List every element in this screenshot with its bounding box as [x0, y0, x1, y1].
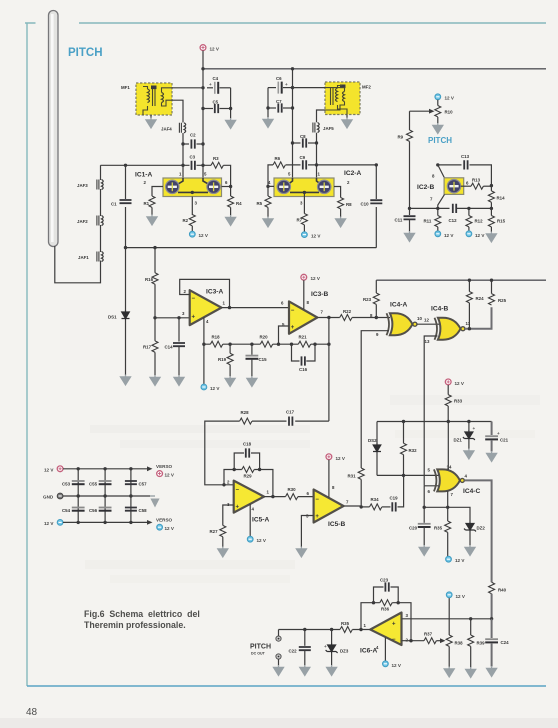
- capacitor C55: [99, 481, 112, 484]
- ground below C22: [300, 665, 310, 675]
- inductor JAF3: [97, 180, 103, 190]
- ground below R4: [226, 215, 236, 225]
- wire IC5-A output to IC5-B: [264, 496, 314, 498]
- wire pin4 to 12V: [249, 504, 251, 536]
- svg-text:R28: R28: [241, 410, 250, 415]
- ground below C6/C7: [263, 117, 273, 127]
- wire feedback line C17/R28: [205, 421, 329, 485]
- resistor R34: [361, 506, 369, 508]
- inductor JAF5: [313, 123, 319, 133]
- wire rail x=292.5 down to IC2 pin5: [292, 69, 294, 178]
- ground below R38: [444, 667, 454, 677]
- gate block IC2-B: [444, 178, 464, 195]
- svg-text:12 V: 12 V: [311, 234, 321, 239]
- svg-text:PITCH: PITCH: [428, 136, 452, 145]
- op-amp IC6-A (mirrored): [370, 613, 401, 646]
- svg-text:PITCH: PITCH: [68, 47, 103, 59]
- resistor R5: [265, 196, 271, 207]
- resistor R40: [489, 582, 495, 593]
- resistor R16: [154, 248, 156, 273]
- ground below C4/C5: [226, 118, 236, 128]
- ground below R1: [147, 215, 157, 225]
- resistor R7: [301, 214, 307, 225]
- wiper arrow into R38: [436, 640, 440, 642]
- wire pin7 down: [447, 491, 449, 507]
- wire pin7 to lower rail: [438, 194, 445, 208]
- wire pin2 to R37: [402, 640, 425, 642]
- inductor JAF2: [97, 216, 103, 226]
- svg-text:R40: R40: [498, 588, 507, 593]
- resistor R9: [409, 111, 411, 208]
- ground below C15: [247, 376, 257, 386]
- capacitor C56: [99, 508, 112, 511]
- wire C6/C7 left side to ground: [267, 88, 269, 118]
- svg-text:12 V: 12 V: [311, 276, 321, 281]
- svg-text:C56: C56: [89, 508, 98, 513]
- resistor R20: [260, 341, 272, 347]
- svg-text:R31: R31: [348, 474, 357, 479]
- svg-text:C14: C14: [165, 345, 174, 350]
- svg-text:R27: R27: [210, 529, 219, 534]
- wire pin2 to R1: [152, 187, 163, 197]
- resistor R35 input: [340, 627, 352, 633]
- wire x=316.5 down to IC2 pin1: [316, 143, 318, 178]
- capacitor C21: [491, 422, 493, 436]
- wire antenna to JAF1: [55, 246, 101, 283]
- node 12V supply top: [200, 45, 206, 51]
- wire rail to IC2-B pin5 and C13: [436, 163, 439, 166]
- node 12V at IC5-A pin4: [247, 536, 253, 542]
- svg-text:+: +: [392, 622, 396, 628]
- wire rail x=203 down to IC1 pin5: [202, 69, 204, 178]
- svg-text:12: 12: [424, 318, 429, 323]
- resistor R1: [149, 196, 155, 207]
- svg-text:C58: C58: [139, 508, 148, 513]
- svg-text:10: 10: [417, 316, 422, 321]
- svg-text:R9: R9: [398, 135, 404, 140]
- resistor R39: [470, 619, 472, 635]
- svg-text:12 V: 12 V: [44, 521, 54, 526]
- svg-text:R4: R4: [236, 201, 242, 206]
- ground below IC5-B pin5: [296, 547, 306, 557]
- wire to IC3-A pin3: [155, 317, 190, 319]
- svg-text:C12: C12: [449, 218, 458, 223]
- svg-text:12 V: 12 V: [456, 594, 466, 599]
- transformer MF2: [325, 82, 360, 115]
- svg-text:14: 14: [447, 465, 452, 470]
- ground below R39: [466, 667, 476, 677]
- ground below C21: [487, 451, 497, 461]
- wire mid rail y=247.6: [126, 247, 377, 249]
- svg-text:VERSO: VERSO: [156, 464, 173, 469]
- wire C4/C5 right side to ground: [230, 88, 232, 119]
- svg-text:C15: C15: [259, 357, 268, 362]
- node 12V negative at R2: [189, 231, 195, 237]
- svg-text:R18: R18: [212, 335, 221, 340]
- node 12V at R33: [445, 379, 451, 385]
- trimmer wiper arrow R10: [410, 110, 430, 112]
- svg-text:IC4-A: IC4-A: [390, 302, 407, 309]
- svg-text:12 V: 12 V: [210, 47, 220, 52]
- svg-text:R12: R12: [475, 219, 484, 224]
- svg-text:R34: R34: [371, 497, 380, 502]
- svg-text:GND: GND: [43, 495, 54, 500]
- svg-text:R37: R37: [424, 632, 433, 637]
- svg-text:+: +: [285, 82, 288, 87]
- svg-text:IC3-A: IC3-A: [206, 289, 223, 296]
- svg-text:13: 13: [425, 339, 430, 344]
- svg-text:C3: C3: [190, 155, 196, 160]
- svg-text:−: −: [291, 308, 295, 314]
- svg-text:C20: C20: [409, 526, 418, 531]
- op-amp cell block IC2-A: [274, 178, 334, 197]
- ground arrow at GND rail end: [150, 495, 155, 497]
- svg-text:JAF1: JAF1: [78, 255, 89, 260]
- wire pin3 to R7: [303, 192, 305, 213]
- wire terminal to input line: [278, 630, 280, 637]
- capacitor C24: [491, 619, 493, 638]
- ground below C20: [419, 545, 429, 555]
- svg-text:Theremin professionale.: Theremin professionale.: [84, 620, 186, 630]
- svg-text:12 V: 12 V: [475, 233, 485, 238]
- op-amp IC3-B: [289, 301, 317, 333]
- resistor R21: [279, 343, 329, 345]
- svg-text:R25: R25: [498, 298, 507, 303]
- svg-text:R29: R29: [244, 474, 253, 479]
- wire input line PITCH out: [279, 629, 371, 631]
- wire supply rail y=280.2: [376, 279, 546, 281]
- frame bottom border line: [27, 685, 546, 687]
- wire top supply rail y=68.8: [203, 68, 546, 70]
- feedback loop R36: [361, 603, 411, 641]
- svg-text:R2: R2: [183, 218, 189, 223]
- wire pin5 to ground: [301, 516, 313, 548]
- wire IC4-A pin9 down long: [361, 331, 389, 468]
- wire terminal bottom to ground: [278, 659, 280, 665]
- ground below DS1: [121, 375, 131, 385]
- svg-text:C53: C53: [62, 482, 71, 487]
- trimmer R38: [448, 598, 450, 635]
- svg-text:+: +: [497, 431, 500, 436]
- transformer MF1: [136, 83, 172, 115]
- svg-text:C23: C23: [380, 578, 389, 583]
- svg-text:R8: R8: [346, 202, 352, 207]
- ground below DZ1: [464, 449, 474, 459]
- svg-text:R24: R24: [476, 296, 485, 301]
- node 12V for R10: [435, 94, 441, 100]
- svg-text:R36: R36: [381, 607, 390, 612]
- svg-text:DC OUT: DC OUT: [251, 652, 266, 656]
- node 12V negative input: [57, 520, 63, 526]
- terminal PITCH DC OUT top: [276, 636, 281, 641]
- ground below MF2: [346, 115, 348, 118]
- wire MF1 top pin to rail: [172, 87, 203, 89]
- capacitor C57: [125, 481, 137, 484]
- ground below R17: [150, 375, 160, 385]
- svg-text:C10: C10: [361, 202, 370, 207]
- svg-text:DZ3: DZ3: [340, 649, 349, 654]
- xor gate IC4-B: [435, 318, 461, 340]
- capacitor C13: [438, 164, 462, 166]
- resistor R15: [490, 208, 492, 215]
- resistor R3: [211, 162, 223, 168]
- svg-text:R32: R32: [409, 448, 418, 453]
- wire pin14 from R33 rail: [447, 422, 449, 471]
- svg-text:12 V: 12 V: [455, 558, 465, 563]
- trimmer R10: [437, 100, 439, 124]
- capacitor C19: [382, 506, 391, 508]
- capacitor C9: [303, 160, 306, 169]
- inductor JAF1: [97, 252, 103, 262]
- svg-text:C13: C13: [461, 154, 470, 159]
- capacitor C12: [453, 204, 456, 213]
- resistor R27: [220, 525, 226, 536]
- svg-text:C8: C8: [300, 134, 306, 139]
- wire zener rail y=421.5: [377, 421, 492, 423]
- wire cap column x=130.9: [130, 469, 132, 523]
- capacitor C4: [207, 87, 213, 89]
- wire MF2 secondary to JAF5: [317, 110, 326, 143]
- svg-text:IC3-B: IC3-B: [311, 291, 328, 298]
- svg-text:12 V: 12 V: [165, 472, 175, 477]
- capacitor C2: [183, 143, 189, 145]
- capacitor C1: [124, 164, 127, 167]
- wire feedback loop IC3-A pin2: [180, 279, 230, 307]
- node 12V at R11: [435, 231, 441, 237]
- svg-text:R39: R39: [477, 641, 486, 646]
- node junction: [201, 67, 204, 70]
- frame top border line: [25, 22, 546, 24]
- op-amp IC5-B: [314, 490, 344, 523]
- wire MF1 secondary to JAF4: [172, 100, 183, 144]
- svg-text:−: −: [315, 497, 319, 503]
- svg-text:R3: R3: [213, 156, 219, 161]
- svg-text:R15: R15: [497, 219, 506, 224]
- svg-text:C19: C19: [390, 496, 399, 501]
- capacitor C15: [251, 344, 253, 355]
- svg-text:+: +: [209, 82, 212, 87]
- ground below R15: [486, 232, 496, 242]
- svg-text:12 V: 12 V: [444, 233, 454, 238]
- wire cap column x=105.1: [104, 469, 106, 523]
- svg-text:JAF3: JAF3: [77, 183, 88, 188]
- wire pin3 to R2: [191, 197, 193, 216]
- xor gate IC4-C: [434, 469, 460, 491]
- resistor R24: [468, 280, 470, 291]
- svg-text:MF2: MF2: [362, 85, 371, 90]
- node GND input: [57, 493, 63, 499]
- svg-text:JAF4: JAF4: [161, 127, 172, 132]
- wire IC5-B output: [344, 505, 362, 507]
- xor gate IC4-A: [387, 313, 413, 335]
- wire IC4-A out to IC4-B in: [417, 323, 439, 325]
- capacitor C11: [409, 208, 411, 215]
- svg-text:48: 48: [26, 707, 38, 718]
- wire lower rail y=208.4: [410, 207, 492, 209]
- ground below C11: [405, 231, 415, 241]
- ground below C24: [487, 666, 497, 676]
- wire output IC3-A to IC3-B: [221, 307, 289, 309]
- svg-text:R7: R7: [297, 218, 303, 223]
- svg-text:R23: R23: [363, 297, 372, 302]
- svg-text:C1: C1: [111, 202, 117, 207]
- wire IC4-B output to R24 R25: [465, 307, 492, 329]
- svg-text:C17: C17: [286, 410, 295, 415]
- svg-text:R21: R21: [299, 335, 308, 340]
- node 12V at R12: [466, 231, 472, 237]
- svg-text:R6: R6: [275, 156, 281, 161]
- zener DZ2: [464, 522, 476, 532]
- resistor R23: [375, 280, 377, 293]
- wire pin2 to R8: [334, 187, 341, 198]
- svg-text:12 V: 12 V: [392, 663, 402, 668]
- svg-text:+: +: [236, 505, 240, 511]
- svg-text:12 V: 12 V: [199, 233, 209, 238]
- svg-text:C5: C5: [213, 100, 219, 105]
- zener DZ1: [468, 422, 470, 432]
- wire cap column x=78.2: [77, 469, 79, 523]
- op-amp IC3-A: [190, 290, 222, 325]
- svg-text:C16: C16: [299, 367, 308, 372]
- svg-text:JAF2: JAF2: [77, 219, 88, 224]
- node 12V negative at R7: [302, 232, 308, 238]
- svg-text:C57: C57: [139, 482, 148, 487]
- capacitor C10: [375, 163, 378, 166]
- resistor R33: [447, 385, 449, 395]
- op-amp IC5-A: [234, 481, 264, 513]
- node 12V below R35: [446, 556, 452, 562]
- svg-text:IC2-A: IC2-A: [344, 170, 361, 177]
- wire IC4-B pin13 down long: [424, 336, 437, 486]
- ground below R19: [225, 376, 235, 386]
- wire lower rail y=507.3: [424, 507, 470, 522]
- capacitor C22: [304, 630, 306, 646]
- resistor R30: [286, 494, 298, 500]
- svg-text:−: −: [392, 637, 396, 643]
- svg-text:12 V: 12 V: [455, 381, 465, 386]
- svg-text:R11: R11: [424, 219, 432, 224]
- inductor JAF4: [179, 123, 185, 133]
- svg-text:R35: R35: [434, 526, 443, 531]
- node 12V supply input: [57, 466, 63, 472]
- node 12V at IC5-B pin8: [326, 454, 332, 460]
- svg-text:DS2: DS2: [368, 438, 377, 443]
- svg-text:C54: C54: [62, 508, 71, 513]
- wire -12V rail: [63, 521, 148, 523]
- terminal PITCH DC OUT bottom: [276, 654, 281, 659]
- ground below DZ2: [465, 545, 475, 555]
- capacitor C54: [72, 508, 85, 511]
- wire pin5 input line y=475.4: [377, 474, 439, 476]
- svg-text:IC5-B: IC5-B: [328, 521, 345, 528]
- wire pin4 to R5: [266, 185, 269, 188]
- capacitor C3: [192, 161, 195, 170]
- wire output down to C17 feedback: [328, 318, 330, 422]
- resistor R17: [154, 318, 156, 341]
- wire pin6 to R4: [222, 186, 231, 188]
- resistor R14: [490, 186, 492, 191]
- capacitor C23 loop: [374, 587, 399, 603]
- node 12V at R38: [446, 592, 452, 598]
- svg-text:C9: C9: [300, 155, 306, 160]
- svg-text:R17: R17: [143, 345, 152, 350]
- resistor R8: [338, 198, 344, 209]
- svg-text:−: −: [192, 296, 196, 302]
- ground below R8: [336, 217, 346, 227]
- svg-text:12 V: 12 V: [165, 526, 175, 531]
- svg-text:MF1: MF1: [121, 85, 130, 90]
- svg-text:C22: C22: [289, 649, 298, 654]
- svg-text:R38: R38: [455, 641, 464, 646]
- resistor R31 in pin9 line: [358, 468, 364, 479]
- resistor R22: [340, 315, 352, 321]
- resistor R11: [437, 208, 439, 215]
- wire 12V to IC5-B top: [328, 460, 330, 498]
- svg-text:R1: R1: [144, 201, 150, 206]
- wire x=183 down to IC1 pin1: [182, 144, 184, 178]
- svg-text:R19: R19: [218, 357, 227, 362]
- resistor R6: [273, 162, 285, 168]
- svg-text:JAF5: JAF5: [323, 126, 334, 131]
- wire 12V to IC3-B top: [303, 280, 305, 309]
- svg-text:IC4-C: IC4-C: [463, 488, 480, 495]
- svg-text:12 V: 12 V: [336, 456, 346, 461]
- svg-text:R10: R10: [445, 110, 454, 115]
- antenna: [49, 11, 59, 247]
- wire GND rail: [63, 495, 150, 497]
- resistor R28: [240, 418, 252, 424]
- wire pin4 to 12V: [203, 317, 205, 384]
- capacitor C6: [268, 87, 276, 89]
- svg-text:R22: R22: [343, 309, 352, 314]
- svg-text:R14: R14: [497, 196, 506, 201]
- resistor R4: [228, 196, 234, 207]
- svg-text:C11: C11: [395, 218, 403, 223]
- resistor R32: [403, 422, 405, 444]
- capacitor C7: [268, 107, 276, 109]
- svg-text:12 V: 12 V: [257, 538, 267, 543]
- wire IC3-B output: [317, 317, 339, 319]
- wire pin6 input from pin13 line: [424, 486, 438, 508]
- wire MF2 top pin to rail: [293, 87, 326, 89]
- diode DS1: [125, 248, 127, 311]
- svg-text:R5: R5: [257, 201, 263, 206]
- svg-text:IC4-B: IC4-B: [431, 306, 448, 313]
- zener DZ3: [331, 630, 333, 645]
- wire left oscillator rail y=165.3: [101, 165, 231, 186]
- resistor R19: [229, 344, 231, 353]
- svg-text:R30: R30: [288, 487, 297, 492]
- svg-text:12 V: 12 V: [44, 468, 54, 473]
- svg-text:C7: C7: [276, 99, 282, 104]
- node 12V at IC6-A pin4: [383, 661, 389, 667]
- svg-text:DS1: DS1: [108, 315, 117, 320]
- resistor R29: [242, 467, 254, 473]
- svg-text:IC6-A: IC6-A: [360, 648, 377, 655]
- ground below R10: [433, 123, 443, 133]
- node 12V at IC3-A pin4: [201, 384, 207, 390]
- capacitor C5: [203, 108, 213, 110]
- svg-text:C18: C18: [243, 442, 252, 447]
- svg-text:+: +: [192, 315, 196, 321]
- capacitor C18 loop: [234, 453, 259, 470]
- wire IC4-C output long to R40: [464, 480, 491, 582]
- node 12V at IC3-B pin8: [301, 274, 307, 280]
- svg-text:C4: C4: [213, 76, 219, 81]
- svg-text:+: +: [315, 514, 319, 520]
- diode DS2: [376, 422, 378, 445]
- wire feedback loop R29: [222, 483, 225, 486]
